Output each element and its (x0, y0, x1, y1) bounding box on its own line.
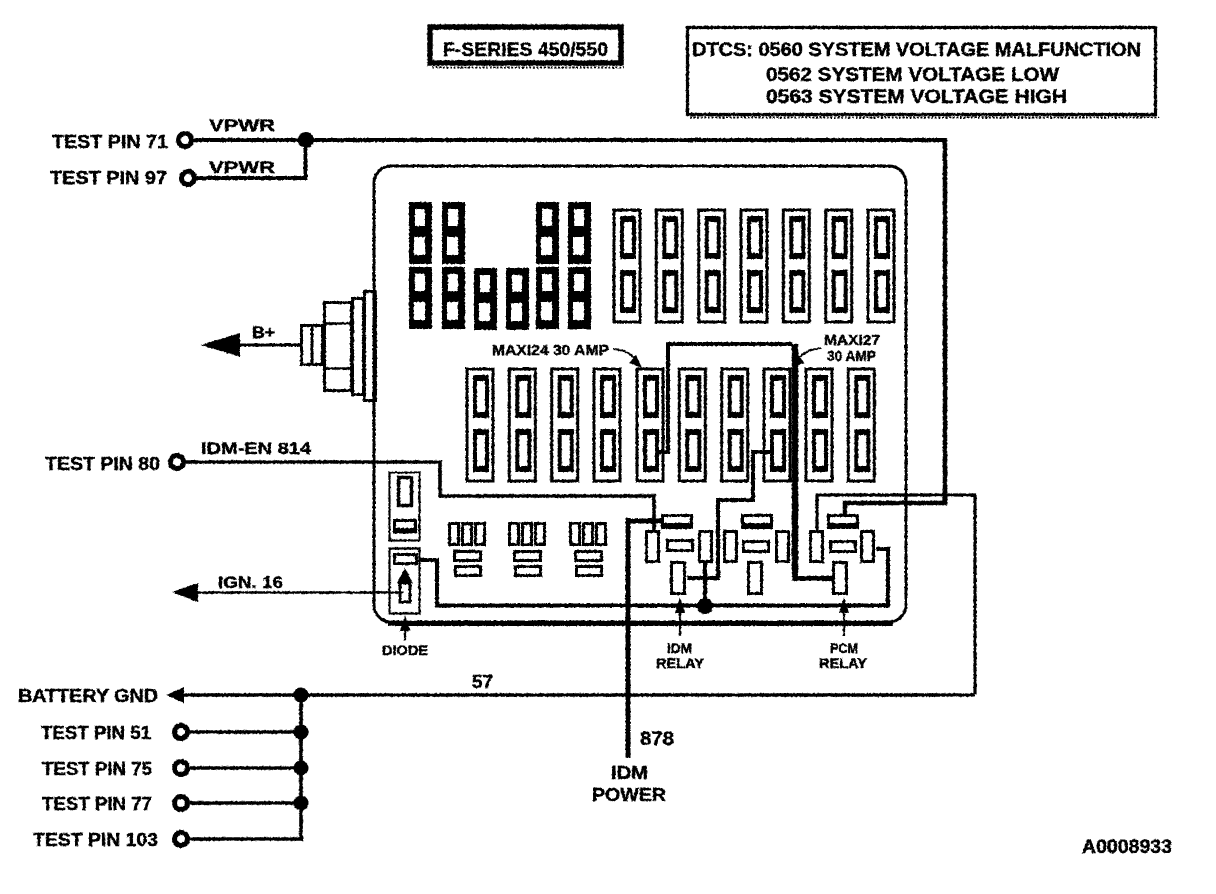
wire main relay bus (419, 549, 888, 606)
terminal circle TEST PIN 51 (175, 726, 188, 739)
wire VPWR from TEST PIN 71 to right side (192, 138, 947, 142)
wire IDM right pin drop (703, 562, 707, 606)
arrow IGN. 16 (172, 583, 198, 602)
wire 878 drop (626, 518, 631, 758)
wire MAXI fuse M8 to IDM relay (706, 452, 770, 578)
label IDM RELAY (656, 641, 704, 671)
B+ arrow (201, 333, 240, 357)
terminal circle TEST PIN 77 (175, 797, 188, 810)
label MAXI27 30 AMP (824, 332, 880, 365)
maxi fuse T3 (699, 210, 725, 322)
node junction VPWR (298, 132, 314, 148)
svg-text:IDM: IDM (611, 763, 648, 783)
mini fuse A2 (442, 202, 465, 264)
terminal circle TEST PIN 97 (182, 172, 195, 185)
small component group 2 (510, 524, 545, 576)
wire MAXI27 thick vertical drop (792, 344, 799, 577)
leader arrow MAXI27 (792, 348, 821, 367)
wire B+ to stud (236, 344, 302, 347)
wire IGN. 16 to diode (195, 591, 403, 594)
relay U1 IDM right pin (700, 532, 712, 562)
svg-text:IDM-EN 814: IDM-EN 814 (201, 439, 312, 458)
wire IDM-EN 814 (185, 462, 654, 531)
wire TEST PIN 51 (190, 730, 303, 734)
relay U3 PCM bottom pin (834, 563, 847, 594)
wire TEST PIN 103 (190, 837, 303, 841)
terminal circle TEST PIN 75 (175, 762, 188, 775)
svg-text:F-SERIES 450/550: F-SERIES 450/550 (443, 40, 608, 61)
svg-text:TEST PIN 103: TEST PIN 103 (33, 830, 158, 850)
mini fuse A3 (536, 202, 559, 264)
wire IDM bottom pin stub (687, 576, 705, 580)
maxi fuse T7 (868, 210, 894, 322)
relay U3 PCM coil (831, 542, 856, 552)
svg-text:TEST PIN 75: TEST PIN 75 (42, 759, 152, 779)
arrow pointer DIODE (400, 615, 410, 640)
mini fuse B4 (506, 268, 529, 330)
diode D1 symbol (397, 568, 413, 602)
relay U1 IDM bottom pin (672, 563, 685, 594)
svg-text:TEST PIN 77: TEST PIN 77 (42, 794, 152, 814)
maxi fuse M5 MAXI24 (637, 369, 663, 481)
svg-text:TEST PIN 97: TEST PIN 97 (50, 168, 167, 188)
label IDM POWER (592, 763, 666, 805)
terminal circle TEST PIN 71 (179, 134, 192, 147)
svg-text:BATTERY GND: BATTERY GND (18, 686, 158, 706)
diode housing lower (390, 549, 420, 614)
maxi fuse M3 (552, 369, 578, 481)
mini fuse B6 (568, 267, 591, 329)
maxi fuse M10 (848, 369, 874, 481)
terminal circle TEST PIN 80 (171, 456, 184, 469)
maxi fuse M1 (467, 369, 493, 481)
svg-text:0563 SYSTEM VOLTAGE HIGH: 0563 SYSTEM VOLTAGE HIGH (766, 87, 1067, 108)
svg-text:PCM: PCM (830, 641, 858, 656)
svg-text:878: 878 (640, 729, 674, 750)
B+ battery stud washer (353, 299, 364, 395)
fuse box outline (374, 166, 906, 622)
small component group 1 (450, 524, 485, 576)
B+ battery stud threads (302, 325, 323, 365)
svg-text:B+: B+ (252, 323, 275, 342)
mini fuse A4 (568, 202, 591, 264)
node junction pin 75 (294, 761, 309, 776)
mini fuse B3 (474, 268, 497, 330)
mini fuse B1 (409, 267, 432, 329)
maxi fuse M6 (679, 369, 705, 481)
maxi fuse M2 (509, 369, 535, 481)
arrow pointer PCM RELAY (839, 597, 849, 636)
maxi fuse T6 (826, 210, 852, 322)
relay U1 IDM top pin (661, 516, 693, 530)
maxi fuse T1 (614, 210, 640, 322)
svg-text:0562 SYSTEM VOLTAGE LOW: 0562 SYSTEM VOLTAGE LOW (766, 65, 1059, 86)
wire to PCM relay bottom pin (792, 576, 834, 581)
svg-text:TEST PIN 80: TEST PIN 80 (45, 454, 160, 474)
B+ battery stud flange (365, 292, 376, 401)
wire VPWR right vertical drop (845, 138, 945, 516)
terminal circle TEST PIN 103 (175, 833, 188, 846)
svg-text:30 AMP: 30 AMP (827, 348, 876, 365)
relay U1 IDM coil (668, 541, 693, 551)
svg-text:MAXI27: MAXI27 (824, 332, 880, 349)
svg-text:57: 57 (472, 672, 493, 692)
mini fuse B2 (442, 267, 465, 329)
maxi fuse T2 (656, 210, 682, 322)
maxi fuse M9 (806, 369, 832, 481)
maxi fuse M7 (722, 369, 748, 481)
svg-text:IDM: IDM (667, 641, 692, 656)
svg-text:IGN. 16: IGN. 16 (218, 573, 283, 592)
wire BATTERY GND 57 (181, 693, 975, 697)
maxi fuse T4 (741, 210, 767, 322)
svg-text:A0008933: A0008933 (1082, 837, 1172, 858)
node junction battery gnd (294, 688, 309, 703)
small component group 3 (571, 524, 606, 576)
wire TEST PIN 77 (190, 801, 303, 805)
arrow pointer IDM RELAY (675, 597, 685, 636)
svg-text:DIODE: DIODE (382, 642, 428, 658)
relay U3 PCM right pin (862, 532, 874, 562)
relay U2 middle left pin (725, 532, 737, 562)
leader arrow MAXI24 (613, 349, 642, 368)
relay U2 middle bottom pin (749, 563, 762, 594)
maxi fuse T5 (783, 210, 809, 322)
wire PCM ground return (817, 495, 975, 694)
svg-text:RELAY: RELAY (819, 656, 867, 671)
arrow BATTERY GND (166, 687, 184, 703)
relay U2 middle coil (744, 542, 769, 552)
diode housing upper (390, 473, 420, 541)
relay U2 middle top pin (741, 516, 773, 530)
label PCM RELAY (819, 641, 867, 671)
svg-text:TEST PIN 71: TEST PIN 71 (52, 132, 168, 152)
maxi fuse M4 (594, 369, 620, 481)
B+ battery stud hex nut (325, 303, 353, 391)
relay U2 middle right pin (777, 532, 789, 562)
svg-text:RELAY: RELAY (656, 656, 704, 671)
maxi fuse M8 MAXI27 (764, 369, 790, 481)
mini fuse B5 (536, 267, 559, 329)
DTC note box (688, 28, 1160, 118)
wire ground ladder vertical (299, 695, 303, 839)
node junction relay bus (697, 598, 713, 614)
svg-text:DTCS: 0560 SYSTEM VOLTAGE MALF: DTCS: 0560 SYSTEM VOLTAGE MALFUNCTION (692, 40, 1141, 61)
svg-text:POWER: POWER (592, 785, 666, 805)
node junction pin 77 (294, 796, 309, 811)
mini fuse A1 (409, 202, 432, 264)
wire IDM power feed (878) vertical (628, 519, 662, 524)
node junction pin 51 (294, 725, 309, 740)
svg-text:TEST PIN 51: TEST PIN 51 (41, 723, 151, 743)
svg-text:VPWR: VPWR (209, 158, 275, 177)
relay U3 PCM left pin (811, 532, 823, 562)
wire MAXI24 fuse to horizontal run (655, 344, 792, 452)
wire TEST PIN 97 to VPWR junction (195, 140, 306, 178)
title box F-SERIES 450/550 (430, 27, 624, 68)
relay U1 IDM left pin (647, 532, 659, 562)
relay U3 PCM top pin (827, 516, 859, 530)
svg-text:MAXI24 30 AMP: MAXI24 30 AMP (492, 342, 609, 359)
wire TEST PIN 75 (190, 766, 303, 770)
fuse box bottom edge (thick) (388, 621, 893, 626)
svg-text:VPWR: VPWR (209, 116, 275, 135)
